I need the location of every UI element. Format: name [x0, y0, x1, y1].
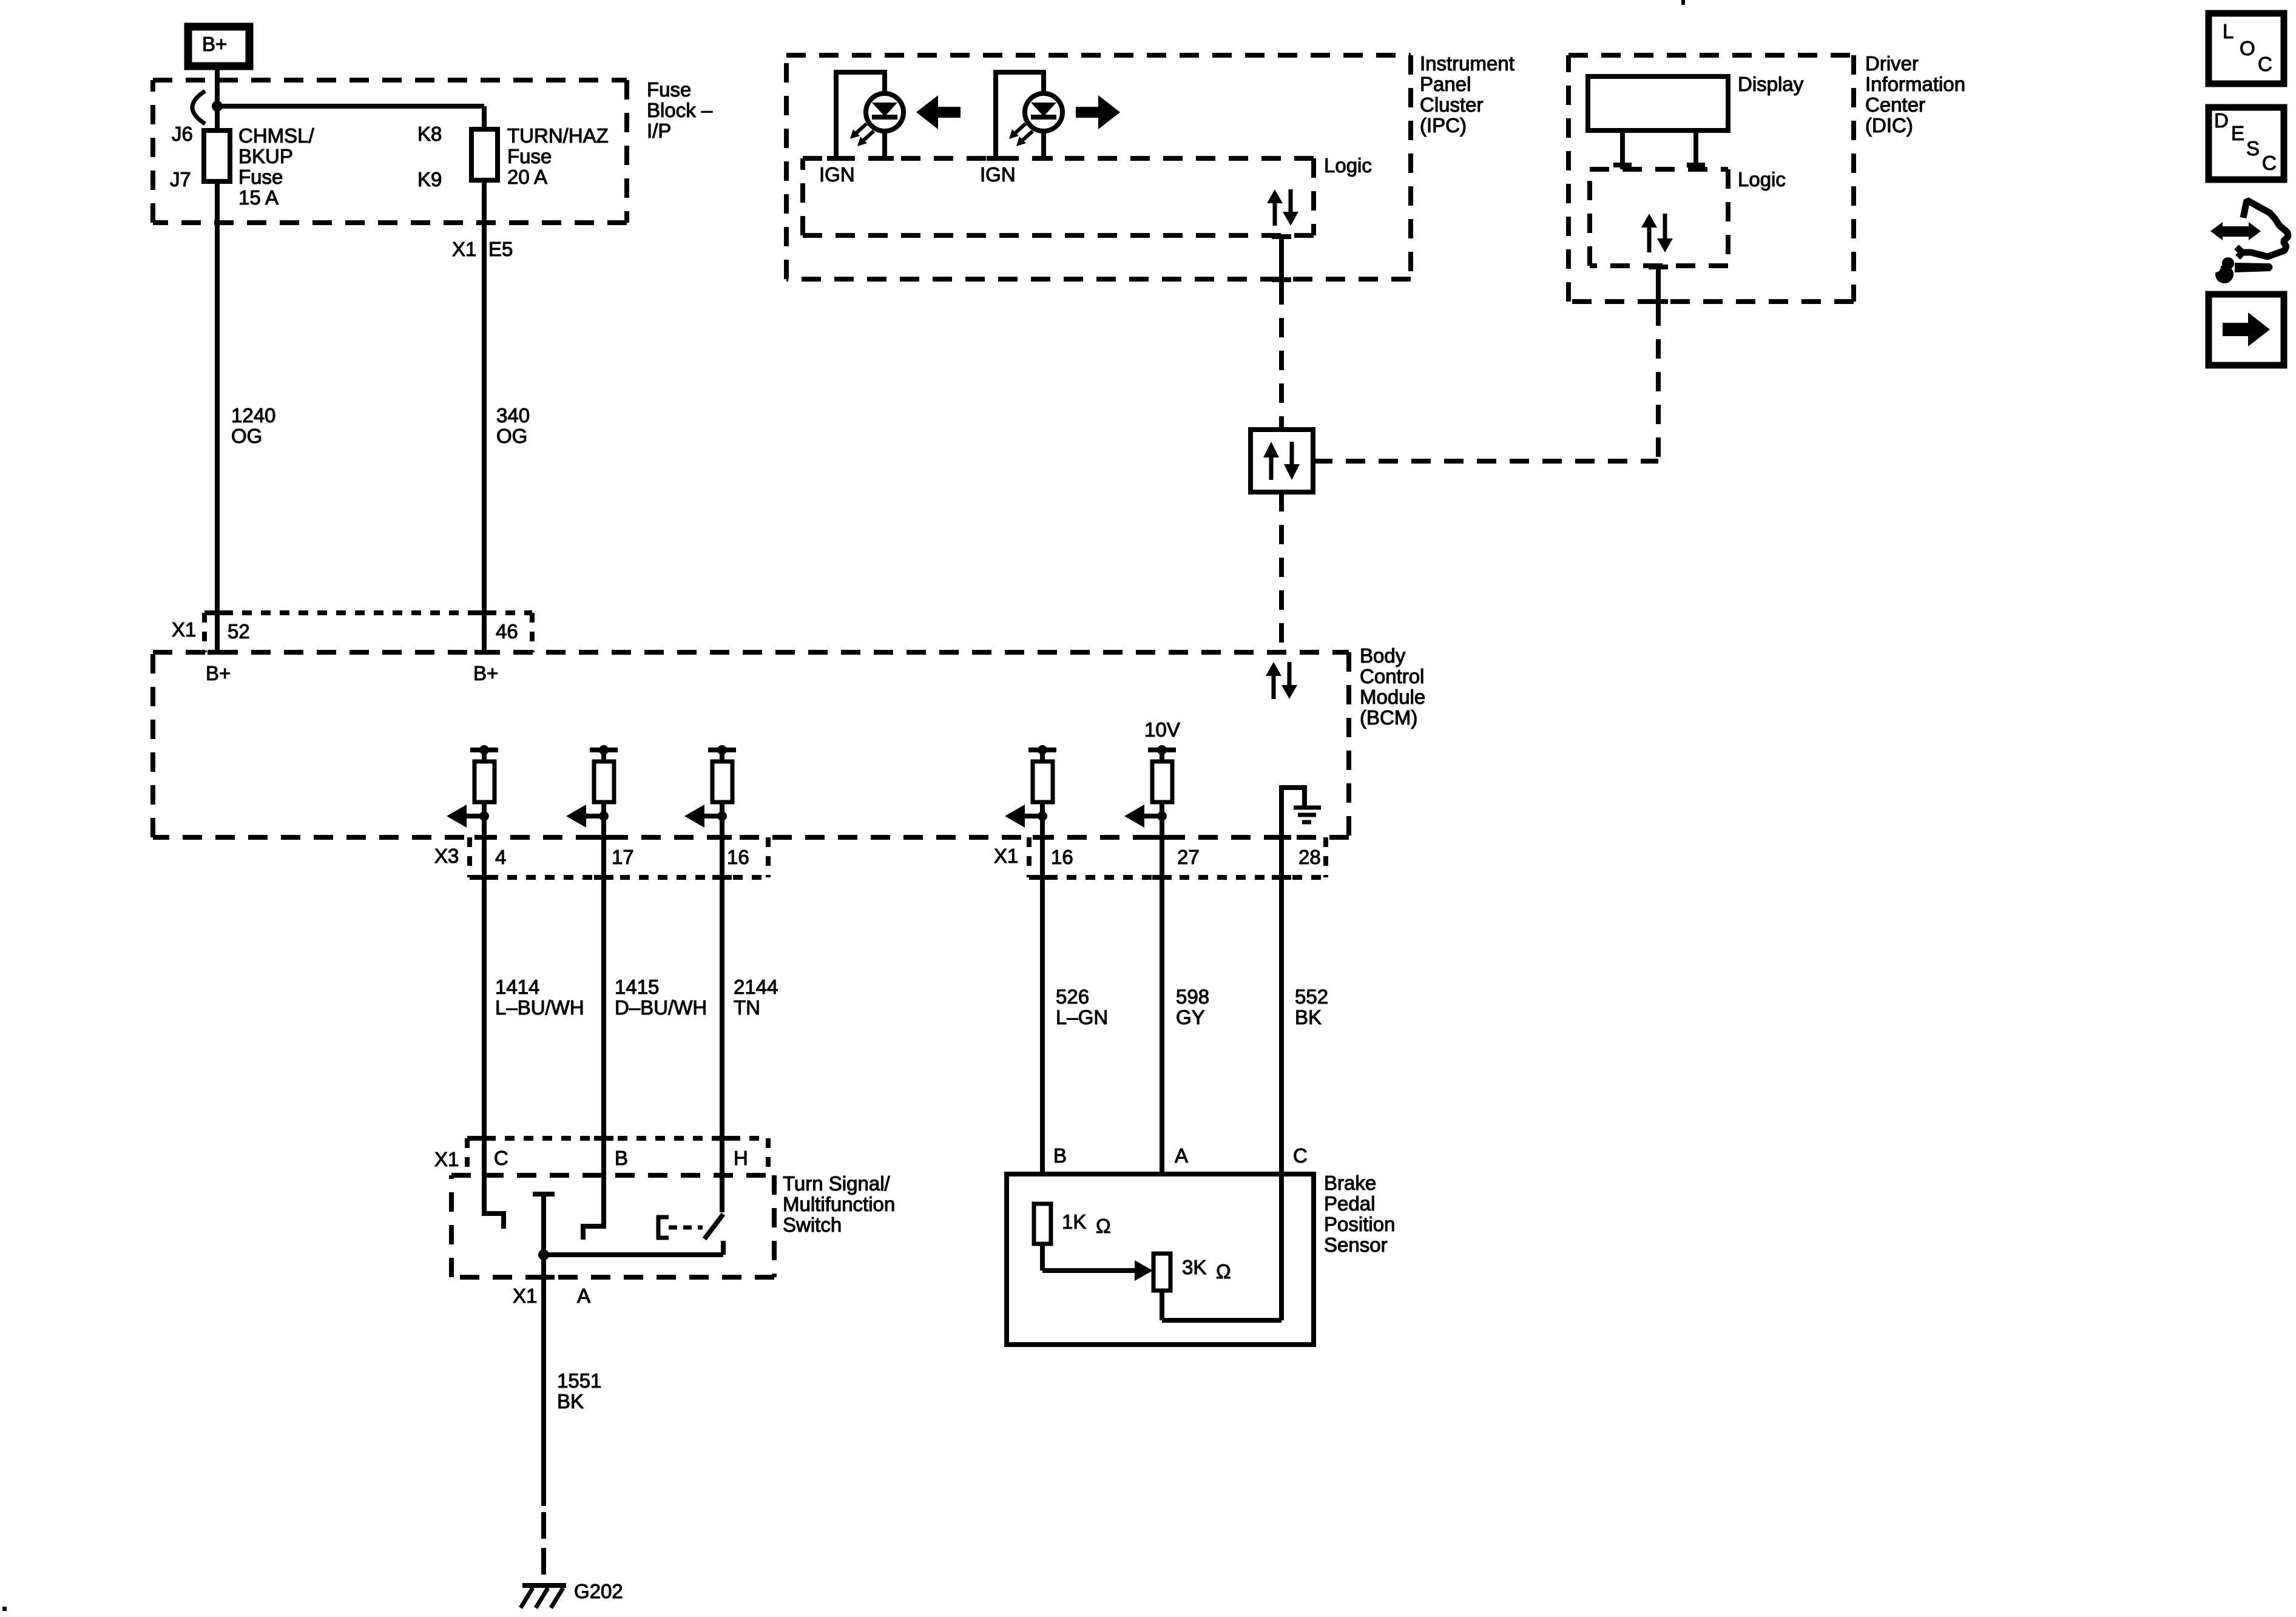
svg-text:B+: B+ — [202, 33, 227, 55]
svg-text:52: 52 — [228, 620, 250, 643]
svg-text:X1: X1 — [513, 1284, 537, 1307]
svg-text:C: C — [494, 1147, 508, 1169]
svg-text:Brake: Brake — [1324, 1172, 1376, 1194]
svg-text:Instrument: Instrument — [1420, 52, 1514, 75]
svg-text:Cluster: Cluster — [1420, 93, 1484, 116]
svg-text:Position: Position — [1324, 1213, 1395, 1235]
svg-text:Fuse: Fuse — [647, 78, 691, 101]
svg-text:CHMSL/: CHMSL/ — [238, 124, 315, 147]
svg-text:TURN/HAZ: TURN/HAZ — [507, 124, 609, 147]
svg-text:Switch: Switch — [783, 1214, 842, 1236]
svg-text:1551: 1551 — [557, 1369, 601, 1392]
svg-text:1415: 1415 — [615, 976, 659, 998]
svg-text:A: A — [577, 1284, 590, 1307]
svg-text:552: 552 — [1295, 985, 1328, 1008]
svg-text:B: B — [615, 1147, 628, 1169]
svg-text:Information: Information — [1865, 73, 1965, 95]
svg-text:16: 16 — [727, 846, 749, 868]
svg-text:S: S — [2246, 137, 2260, 160]
svg-text:Pedal: Pedal — [1324, 1192, 1375, 1215]
svg-text:K9: K9 — [417, 168, 442, 191]
svg-text:BK: BK — [557, 1390, 584, 1413]
svg-text:17: 17 — [612, 846, 634, 868]
svg-text:D–BU/WH: D–BU/WH — [615, 996, 707, 1019]
svg-text:B+: B+ — [206, 662, 231, 684]
svg-text:15 A: 15 A — [238, 186, 279, 209]
svg-text:X1: X1 — [172, 618, 196, 641]
svg-text:OG: OG — [231, 425, 262, 447]
svg-text:K8: K8 — [417, 123, 442, 145]
svg-text:E5: E5 — [488, 238, 513, 260]
svg-text:D: D — [2214, 109, 2229, 132]
svg-text:Driver: Driver — [1865, 52, 1919, 75]
svg-text:IGN: IGN — [980, 163, 1016, 186]
svg-text:Fuse: Fuse — [507, 145, 552, 167]
svg-text:BK: BK — [1295, 1006, 1322, 1028]
svg-text:TN: TN — [734, 996, 760, 1019]
svg-text:3K: 3K — [1182, 1256, 1206, 1278]
svg-text:16: 16 — [1051, 846, 1073, 868]
svg-text:J7: J7 — [170, 168, 191, 191]
svg-text:Module: Module — [1360, 686, 1425, 708]
svg-text:Center: Center — [1865, 93, 1925, 116]
svg-text:H: H — [734, 1147, 748, 1169]
svg-text:X1: X1 — [434, 1148, 459, 1170]
svg-text:Block –: Block – — [647, 99, 713, 121]
svg-text:C: C — [2262, 152, 2277, 174]
svg-text:Display: Display — [1738, 73, 1804, 95]
svg-text:Multifunction: Multifunction — [783, 1193, 895, 1215]
svg-text:1K: 1K — [1062, 1210, 1086, 1233]
svg-text:GY: GY — [1176, 1006, 1205, 1028]
svg-text:(BCM): (BCM) — [1360, 706, 1417, 729]
svg-text:10V: 10V — [1144, 718, 1180, 741]
svg-text:2144: 2144 — [734, 976, 778, 998]
svg-text:Ω: Ω — [1216, 1260, 1231, 1283]
svg-text:(IPC): (IPC) — [1420, 114, 1467, 137]
svg-text:C: C — [1293, 1144, 1308, 1167]
svg-text:1240: 1240 — [231, 404, 275, 427]
svg-text:X3: X3 — [434, 845, 459, 867]
svg-text:E: E — [2231, 122, 2244, 144]
svg-text:27: 27 — [1177, 846, 1200, 868]
svg-text:340: 340 — [496, 404, 530, 427]
svg-text:B: B — [1053, 1144, 1067, 1167]
svg-text:Fuse: Fuse — [238, 166, 283, 188]
svg-text:46: 46 — [496, 620, 518, 643]
svg-text:Body: Body — [1360, 644, 1406, 667]
svg-text:4: 4 — [495, 846, 506, 868]
svg-text:L–BU/WH: L–BU/WH — [495, 996, 584, 1019]
svg-text:Control: Control — [1360, 665, 1424, 687]
svg-text:598: 598 — [1176, 985, 1209, 1008]
svg-text:G202: G202 — [574, 1580, 623, 1602]
svg-text:526: 526 — [1056, 985, 1089, 1008]
svg-text:O: O — [2240, 37, 2255, 59]
svg-text:(DIC): (DIC) — [1865, 114, 1913, 137]
svg-text:Ω: Ω — [1096, 1215, 1111, 1237]
svg-text:C: C — [2258, 53, 2272, 75]
svg-text:20 A: 20 A — [507, 166, 547, 188]
svg-text:OG: OG — [496, 425, 527, 447]
svg-text:J6: J6 — [172, 123, 193, 145]
svg-text:Sensor: Sensor — [1324, 1234, 1388, 1256]
svg-text:BKUP: BKUP — [238, 145, 293, 167]
svg-text:Panel: Panel — [1420, 73, 1471, 95]
svg-text:B+: B+ — [473, 662, 498, 684]
svg-text:X1: X1 — [994, 845, 1018, 867]
svg-text:1414: 1414 — [495, 976, 539, 998]
svg-text:L: L — [2223, 20, 2234, 42]
svg-text:Turn Signal/: Turn Signal/ — [783, 1172, 891, 1195]
svg-text:28: 28 — [1298, 846, 1321, 868]
svg-text:A: A — [1175, 1144, 1188, 1167]
svg-text:I/P: I/P — [647, 120, 671, 142]
svg-text:Logic: Logic — [1324, 154, 1372, 177]
svg-text:L–GN: L–GN — [1056, 1006, 1108, 1028]
svg-text:Logic: Logic — [1738, 168, 1786, 191]
svg-text:IGN: IGN — [819, 163, 855, 186]
svg-text:X1: X1 — [452, 238, 476, 260]
